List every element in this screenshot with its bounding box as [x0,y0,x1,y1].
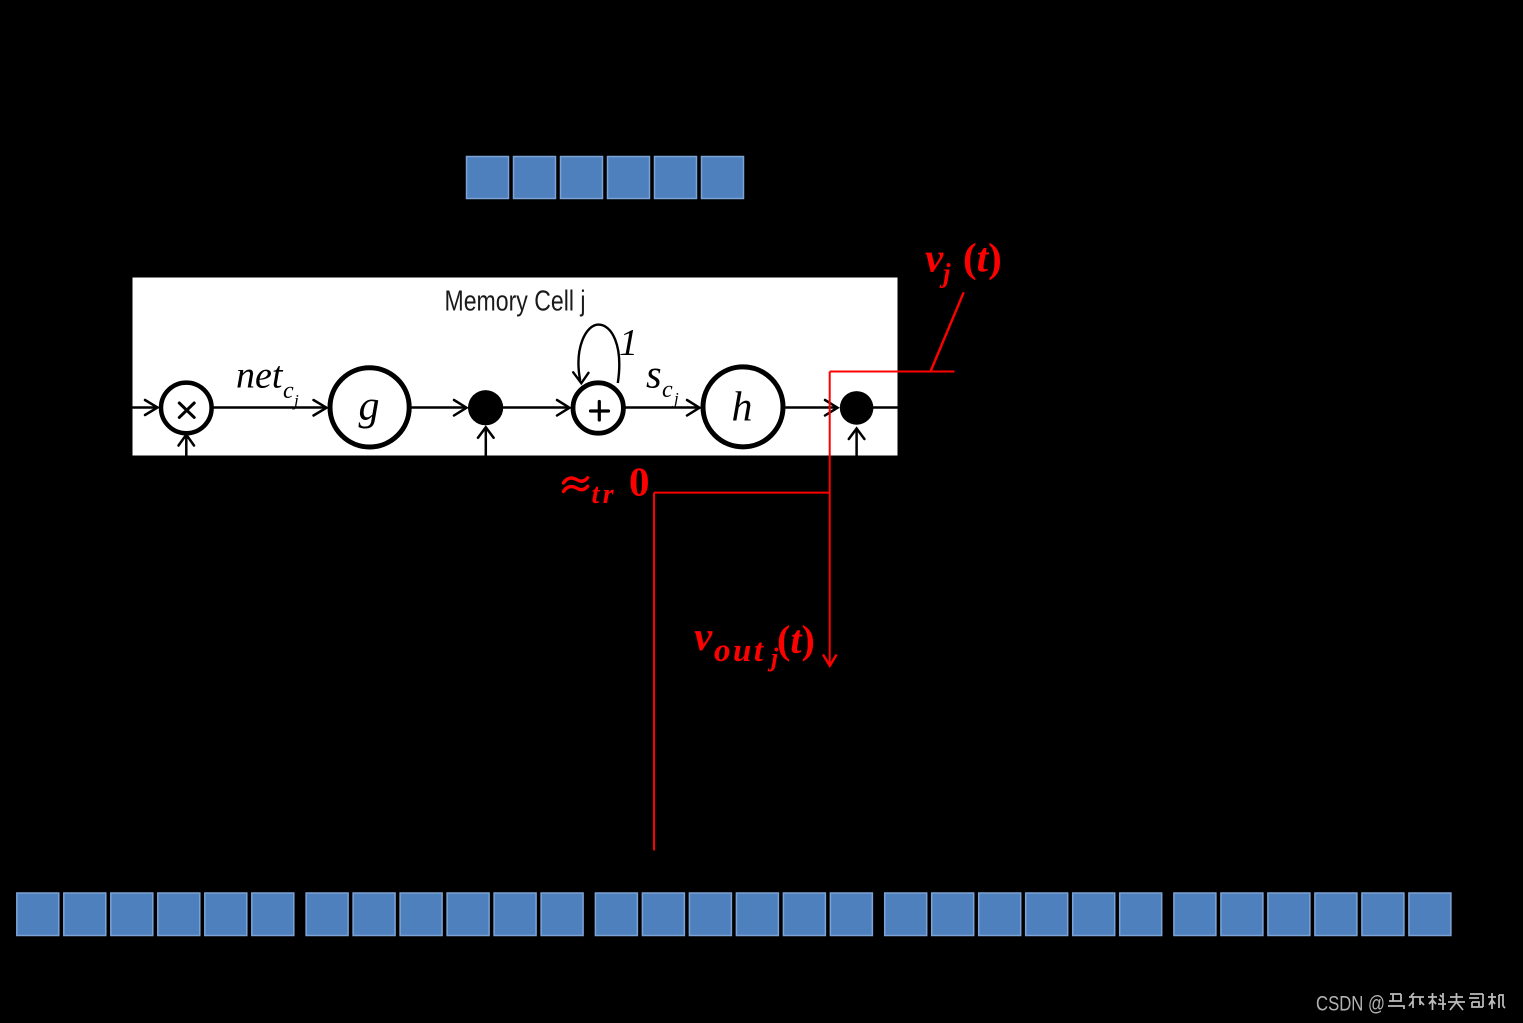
svg-text:j: j [672,389,679,408]
watermark glyph fu [1448,993,1465,1010]
svg-text:c: c [662,377,673,403]
svg-text:0: 0 [629,459,650,505]
watermark glyph ji [1488,993,1505,1009]
svg-text:g: g [359,384,380,430]
label approx tr 0 [564,459,650,511]
wire dot2 to box edge [873,406,898,409]
top blue block row [467,157,744,199]
svg-text:(t): (t) [777,617,815,662]
svg-text:1: 1 [619,322,638,364]
red wire vertical to vout arrow [829,372,831,665]
multiplier unit (x circle) [161,383,212,434]
red leader diagonal vj [931,292,964,371]
svg-text:c: c [283,378,294,404]
wire input arrow into multiplier [133,400,158,415]
up arrow into dot2 [849,429,865,456]
red arrowhead down [823,655,837,666]
wire g to dot1 [412,400,467,416]
watermark glyph ma [1388,994,1404,1009]
watermark glyph ke [1428,993,1446,1010]
svg-text:Memory Cell j: Memory Cell j [445,286,586,318]
red wire horizontal vj [830,371,955,373]
svg-text:CSDN @: CSDN @ [1316,992,1385,1016]
svg-text:(t): (t) [963,235,1002,281]
bottom blue block row group 5 [1174,893,1451,936]
svg-text:v: v [925,235,944,281]
up arrow into multiplier [179,435,195,456]
watermark glyph er [1409,993,1424,1008]
bottom blue block row group 1 [17,893,294,936]
svg-text:net: net [236,355,284,397]
up arrow into dot1 [478,427,494,455]
memory cell box [133,278,898,456]
svg-text:h: h [732,385,753,431]
svg-text:out: out [714,633,766,669]
watermark glyph si [1469,994,1483,1007]
bottom blue block row group 2 [306,893,583,936]
adder unit (+ circle) [573,383,623,433]
wire multiplier to g [214,400,327,416]
svg-text:s: s [646,352,662,397]
red wire horizontal approx-0 [654,492,830,494]
junction dot1 [468,390,503,425]
svg-text:tr: tr [592,479,618,510]
wire dot1 to adder [503,400,570,416]
junction dot2 [840,391,874,425]
unit h circle [703,367,783,447]
svg-text:v: v [694,613,713,659]
label vout_j(t) [694,613,815,672]
wire adder to h [626,400,700,416]
self loop on adder [579,325,620,383]
unit g circle [330,368,409,447]
label vj(t) [925,235,1002,289]
red wire vertical long [653,493,655,851]
wire h to dot2 [786,400,838,416]
bottom blue block row group 3 [595,893,872,936]
bottom blue block row group 4 [885,893,1162,936]
